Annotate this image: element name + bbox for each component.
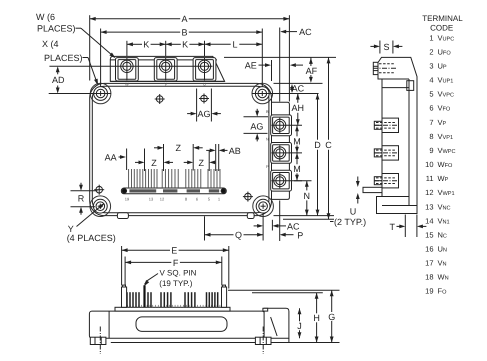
svg-text:AD: AD [52,75,65,85]
svg-text:J: J [297,321,302,331]
svg-text:8: 8 [429,132,433,141]
svg-text:B: B [181,28,187,38]
svg-text:V SQ. PIN: V SQ. PIN [160,269,197,278]
svg-text:S: S [383,42,389,52]
svg-text:U: U [203,81,206,86]
svg-text:5: 5 [429,90,433,99]
svg-text:4: 4 [429,76,433,85]
svg-text:AC: AC [299,27,312,37]
svg-text:Q: Q [235,230,242,240]
svg-text:13: 13 [149,197,154,202]
svg-text:(19 TYP.): (19 TYP.) [159,279,192,288]
svg-text:AH: AH [292,103,305,113]
svg-text:(4 PLACES): (4 PLACES) [67,233,116,243]
svg-text:(2 TYP.): (2 TYP.) [334,217,366,227]
svg-text:19: 19 [125,197,130,202]
svg-text:AG: AG [250,122,263,132]
svg-text:12: 12 [160,197,165,202]
svg-text:1: 1 [429,33,433,42]
svg-text:AB: AB [229,146,241,156]
svg-text:M: M [293,136,301,146]
svg-text:E: E [171,246,177,256]
svg-text:6: 6 [429,104,433,113]
svg-text:18: 18 [425,273,433,282]
svg-text:X (4: X (4 [42,39,59,49]
svg-text:15: 15 [425,230,433,239]
svg-text:13: 13 [425,202,433,211]
svg-text:11: 11 [426,174,434,183]
svg-text:T: T [389,222,395,232]
svg-text:7: 7 [429,118,433,127]
svg-text:N: N [304,191,311,201]
svg-text:K: K [182,40,188,50]
svg-text:B: B [266,109,269,114]
svg-text:F: F [173,258,179,268]
svg-text:V: V [164,81,167,86]
svg-text:D: D [314,140,321,150]
svg-text:U: U [350,206,357,216]
svg-text:H: H [313,313,320,323]
svg-text:AG: AG [197,109,210,119]
svg-text:P: P [297,230,303,240]
svg-text:PLACES): PLACES) [44,53,83,63]
svg-text:A: A [181,14,187,24]
svg-text:R: R [78,193,85,203]
svg-text:AC: AC [292,84,305,94]
svg-text:TERMINAL: TERMINAL [422,14,463,23]
svg-text:L: L [232,40,237,50]
svg-text:19: 19 [425,287,433,296]
svg-text:16: 16 [425,245,433,254]
svg-text:Z: Z [176,143,182,153]
svg-text:Z: Z [199,158,205,168]
svg-text:AA: AA [105,152,117,162]
svg-text:12: 12 [425,188,433,197]
svg-text:17: 17 [425,259,433,268]
svg-text:AF: AF [306,66,318,76]
svg-text:10: 10 [425,160,433,169]
svg-text:14: 14 [425,216,433,225]
svg-text:Z: Z [151,158,157,168]
svg-text:9: 9 [429,146,433,155]
svg-text:K: K [143,40,149,50]
svg-text:W: W [125,81,129,86]
svg-text:W (6: W (6 [36,12,55,22]
svg-text:G: G [328,312,335,322]
svg-text:3: 3 [429,61,433,70]
svg-text:M: M [293,164,301,174]
svg-text:N: N [266,136,269,141]
svg-text:AE: AE [245,61,257,71]
svg-text:2: 2 [429,47,433,56]
svg-text:CODE: CODE [430,24,453,33]
svg-text:C: C [325,140,332,150]
svg-text:P: P [266,164,269,169]
svg-text:PLACES): PLACES) [37,23,76,33]
